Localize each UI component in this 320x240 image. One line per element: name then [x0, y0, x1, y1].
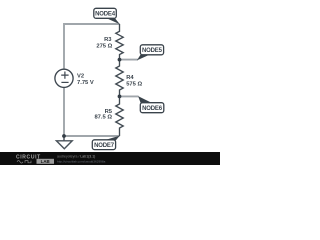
- node B junction (NODE6 tap): [118, 95, 122, 99]
- svg-text:87.5 Ω: 87.5 Ω: [94, 115, 112, 121]
- svg-text:audreyoteyra / Lab1(3.1): audreyoteyra / Lab1(3.1): [57, 155, 95, 159]
- svg-text:NODE4: NODE4: [95, 11, 116, 17]
- svg-text:NODE6: NODE6: [142, 106, 163, 112]
- svg-text:NODE5: NODE5: [142, 48, 163, 54]
- wire: top + left vertical (upper): [64, 24, 120, 69]
- svg-text:V2: V2: [77, 73, 84, 79]
- svg-text:575 Ω: 575 Ω: [126, 81, 142, 87]
- node NODE5 flag: [137, 45, 164, 61]
- svg-text:7.75 V: 7.75 V: [77, 80, 94, 86]
- ground: [63, 136, 65, 141]
- node NODE6 flag: [138, 96, 164, 113]
- svg-text:275 Ω: 275 Ω: [96, 43, 112, 49]
- svg-text:NODE7: NODE7: [94, 143, 115, 149]
- resistor R5: [116, 96, 123, 136]
- node NODE7 flag: [92, 136, 120, 150]
- svg-text:LAB: LAB: [41, 159, 50, 164]
- voltage source V2: [55, 69, 73, 87]
- svg-text:R3: R3: [104, 37, 112, 43]
- node C junction (ground tap): [62, 134, 66, 138]
- CircuitLab logo: [16, 154, 54, 164]
- node NODE4 flag: [94, 8, 120, 24]
- wire: junction to NODE6: [120, 95, 139, 97]
- node A junction (NODE5 tap): [118, 58, 122, 62]
- wire: left vertical (lower) + bottom: [64, 87, 120, 136]
- resistor R4: [116, 60, 123, 97]
- watermark bar: [0, 152, 220, 165]
- svg-text:htip;//circuitlab.com/cwudd362: htip;//circuitlab.com/cwudd362998a: [57, 160, 106, 164]
- svg-text:R4: R4: [126, 75, 134, 81]
- wire: junction to NODE5: [120, 59, 139, 61]
- resistor R3: [116, 24, 123, 60]
